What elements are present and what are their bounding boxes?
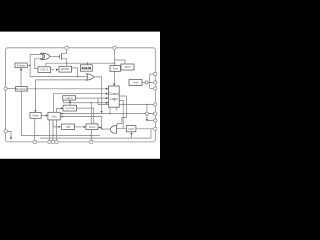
svg-text:Power: Power	[17, 64, 26, 68]
svg-text:TimePoint: TimePoint	[16, 87, 28, 91]
svg-text:Control: Control	[65, 106, 74, 110]
svg-text:OSC1: OSC1	[40, 68, 49, 72]
svg-text:EPSP: EPSP	[61, 67, 69, 71]
svg-text:Control: Control	[109, 92, 120, 96]
svg-text:I/B: I/B	[66, 125, 70, 129]
svg-text:CKP: CKP	[128, 127, 134, 131]
svg-text:Osc: Osc	[51, 114, 57, 118]
svg-text:Test: Test	[112, 66, 118, 70]
svg-text:Mute: Mute	[32, 114, 39, 118]
svg-text:MAIN: MAIN	[82, 66, 92, 70]
svg-text:Vref: Vref	[133, 81, 139, 85]
svg-text:Latch: Latch	[65, 96, 73, 100]
svg-text:Logic: Logic	[110, 97, 118, 101]
svg-text:CPU: CPU	[124, 65, 130, 69]
svg-text:Timer: Timer	[88, 125, 95, 129]
